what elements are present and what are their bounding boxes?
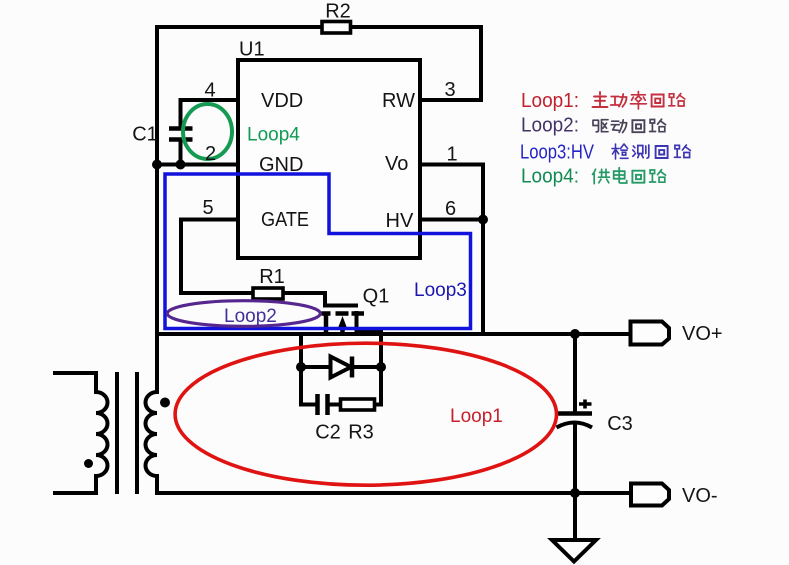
svg-text:RW: RW <box>382 90 415 112</box>
svg-text:R2: R2 <box>325 1 351 23</box>
svg-text:R1: R1 <box>259 266 285 288</box>
svg-text:C2: C2 <box>315 422 341 444</box>
svg-text:R3: R3 <box>348 422 374 444</box>
svg-text:5: 5 <box>202 197 213 219</box>
svg-text:Loop3: Loop3 <box>414 280 467 301</box>
svg-text:VO+: VO+ <box>682 323 723 345</box>
svg-text:Loop3:HV: Loop3:HV <box>520 142 595 164</box>
svg-text:C1: C1 <box>132 124 158 146</box>
svg-text:Vo: Vo <box>385 153 408 175</box>
svg-text:C3: C3 <box>607 413 633 435</box>
svg-text:U1: U1 <box>239 39 265 61</box>
svg-text:6: 6 <box>445 198 456 220</box>
svg-text:GATE: GATE <box>261 209 309 231</box>
svg-text:3: 3 <box>444 79 455 101</box>
svg-text:HV: HV <box>386 210 414 232</box>
svg-text:Loop1: Loop1 <box>450 406 503 427</box>
svg-text:2: 2 <box>205 143 216 165</box>
svg-text:GND: GND <box>259 154 303 176</box>
svg-text:VDD: VDD <box>261 90 303 112</box>
svg-text:Loop2: Loop2 <box>224 306 277 327</box>
svg-text:VO-: VO- <box>682 485 718 507</box>
svg-text:1: 1 <box>446 144 457 166</box>
svg-text:Loop1:: Loop1: <box>521 90 579 112</box>
svg-text:Loop4:: Loop4: <box>521 166 579 188</box>
svg-text:4: 4 <box>204 80 215 102</box>
svg-text:Loop4: Loop4 <box>247 125 300 146</box>
svg-text:Q1: Q1 <box>363 286 390 308</box>
svg-text:Loop2:: Loop2: <box>521 115 579 137</box>
